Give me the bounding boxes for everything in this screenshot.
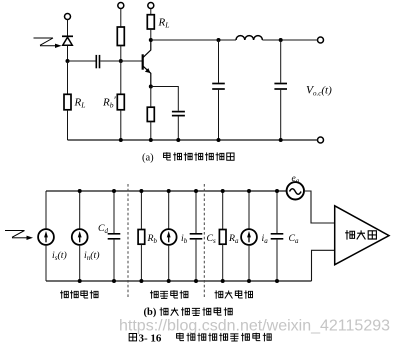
svg-text:is(t): is(t) (52, 250, 67, 262)
wire: terminal to bias resistor (120, 9, 122, 28)
node B (base node) (119, 59, 123, 63)
current source is(t) (38, 229, 54, 245)
light arrow (b) (5, 231, 33, 241)
junction on bottom rail x=120.8 (119, 138, 123, 142)
wire: RL to collector node (150, 29, 152, 40)
transistor Q1 collector lead (143, 41, 151, 58)
resistor (upper bias) (117, 27, 124, 46)
junction bottom rail x=222.7 (221, 279, 225, 283)
node A (photodiode / RL / coupling cap) (66, 59, 70, 63)
junction top rail x=168.7 (167, 189, 171, 193)
junction on bottom rail x=218.5 (217, 138, 221, 142)
output terminal bottom (318, 137, 324, 143)
amplifier triangle U1 (335, 206, 389, 265)
capacitor Ca (271, 234, 284, 239)
wire: terminal to photodiode (67, 20, 69, 37)
caption (a) 光接收机原理图 (164, 152, 235, 161)
resistor Ra (219, 230, 226, 245)
wire: Rb' to bottom rail (120, 110, 122, 140)
voltage source ea (sine) (287, 182, 304, 199)
incident light arrow (a) (34, 38, 62, 48)
wire: coupling cap to transistor base (100, 60, 142, 62)
wire: Cd top (113, 191, 115, 233)
junction top rail x=222.7 (221, 189, 225, 193)
wire: top rail to filter capacitor C1 (218, 40, 220, 83)
junction bottom rail x=168.7 (167, 279, 171, 283)
wire: left edge top (is branch) (45, 191, 47, 229)
current source ia (241, 229, 257, 245)
node E (filter cap 2 top) (279, 38, 283, 42)
wire: bypass cap to bottom rail (177, 117, 179, 141)
wire: Ra top (222, 191, 224, 230)
figure caption 图 (129, 333, 136, 340)
wire: ib branch top (168, 191, 170, 229)
figure caption 光接收机的等效电路 (177, 333, 272, 342)
junction bottom rail x=114 (112, 279, 116, 283)
junction top rail x=114 (112, 189, 116, 193)
node F (emitter) (149, 85, 153, 89)
wire: Rb top (140, 191, 142, 230)
wire: node B down to Rb' (120, 61, 122, 94)
current source ib (161, 229, 177, 245)
junction bottom rail x=141.4 (139, 279, 143, 283)
junction bottom rail x=196 (194, 279, 198, 283)
junction on bottom rail x=150.8 (149, 138, 153, 142)
resistor RL (photodiode load) (64, 94, 71, 110)
resistor RL (collector load) (147, 15, 154, 29)
wire: top rail to filter capacitor C2 (280, 40, 282, 83)
node D (filter cap 1 top) (217, 38, 221, 42)
photodiode VD (62, 36, 73, 45)
transistor Q1 (base bar) (142, 54, 144, 69)
wire: bias resistor to node B (120, 46, 122, 62)
wire: Ca bottom (276, 240, 278, 281)
label 偏置电路 (150, 290, 188, 298)
wire: ib branch bottom (168, 245, 170, 281)
wire: node A down to RL (67, 61, 69, 94)
label 放大器 (345, 230, 376, 240)
filter capacitor C2 (274, 84, 287, 90)
junction on bottom rail x=178.3 (176, 138, 180, 142)
junction top rail x=277 (275, 189, 279, 193)
transistor Q1 emitter lead with arrow (143, 66, 151, 87)
wire: filter capacitor C1 to bottom rail (218, 90, 220, 140)
wire: Vcc terminal to RL (150, 9, 152, 15)
wire: bottom rail to amp bottom input (312, 250, 335, 281)
wire: Re to bottom rail (150, 122, 152, 141)
resistor Re (emitter) (147, 107, 154, 121)
terminal Vcc (RL branch) (148, 3, 154, 9)
inductor L (236, 36, 262, 40)
terminal bias+ (photodiode branch) (65, 14, 71, 20)
bypass capacitor Ce (172, 112, 185, 116)
wire: node A to coupling cap (68, 60, 96, 62)
wire: ia branch bottom (248, 245, 250, 281)
resistor Rb' (117, 94, 124, 110)
wire: Cd bottom (113, 240, 115, 281)
wire: Rb bottom (140, 244, 142, 281)
coupling capacitor C (96, 55, 99, 68)
junction top rail x=249 (247, 189, 251, 193)
junction bottom rail x=249 (247, 279, 251, 283)
junction on bottom rail x=280.7 (279, 138, 283, 142)
dashed divider 2 (偏置/放大) (203, 184, 205, 299)
junction top rail x=196 (194, 189, 198, 193)
wire: ea to amp top input (304, 191, 335, 223)
capacitor Cs (190, 234, 203, 239)
junction bottom rail x=277 (275, 279, 279, 283)
wire: in branch bottom (79, 245, 81, 281)
wire: filter capacitor C2 to bottom rail (280, 90, 282, 140)
svg-text:(a): (a) (142, 153, 154, 164)
wire: left edge bottom (45, 245, 47, 281)
wire: emitter node to bypass cap (151, 87, 179, 111)
wire: ia branch top (248, 191, 250, 229)
bottom rail of circuit (a) (68, 139, 318, 141)
junction top rail x=79.7 (78, 189, 82, 193)
wire: Ra bottom (222, 244, 224, 281)
wire: RL to bottom rail (67, 110, 69, 140)
wire: emitter node to Re (150, 87, 152, 108)
label 放大电路 (215, 290, 253, 298)
svg-text:in(t): in(t) (84, 250, 99, 262)
label 检测电路 (60, 290, 98, 298)
svg-text:3- 16: 3- 16 (139, 332, 162, 344)
node C (collector) (149, 38, 153, 42)
caption (b) 输入端等效电路 (160, 307, 233, 316)
filter capacitor C1 (212, 84, 225, 90)
wire: inductor to output terminal (262, 39, 317, 41)
svg-text:(b): (b) (144, 307, 157, 318)
wire: photodiode to node A (67, 46, 69, 61)
wire: in branch top (79, 191, 81, 229)
capacitor Cd (108, 234, 121, 239)
wire: Ca top (276, 191, 278, 233)
output terminal top (318, 37, 324, 43)
current source in(t) (72, 229, 88, 245)
wire: Cs top (195, 191, 197, 233)
wire: collector node to inductor (151, 39, 236, 41)
terminal bias+ (Rb branch) (118, 3, 124, 9)
junction top rail x=141.4 (139, 189, 143, 193)
dashed divider 1 (检测/偏置) (127, 184, 129, 299)
resistor Rb (138, 230, 145, 245)
wire: Cs bottom (195, 240, 197, 281)
top rail of circuit (b) (46, 190, 287, 192)
bottom rail of circuit (b) (46, 280, 312, 282)
junction bottom rail x=79.7 (78, 279, 82, 283)
